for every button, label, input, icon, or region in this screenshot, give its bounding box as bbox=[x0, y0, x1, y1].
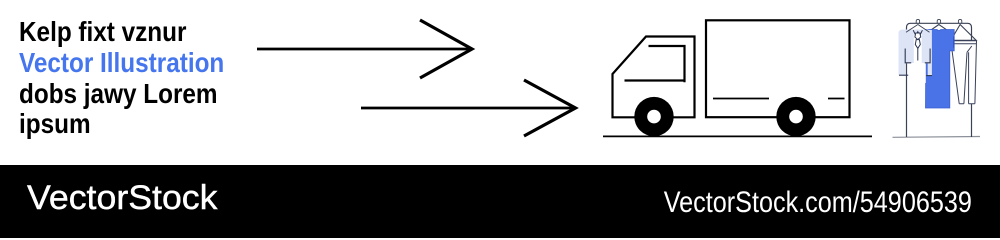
rack frame: top bar and posts bbox=[907, 23, 972, 137]
blue garment sleeve seam bbox=[953, 37, 955, 48]
white shirt tail bbox=[908, 63, 926, 83]
pants outer edges bbox=[951, 41, 977, 104]
arrow 1 shaft bbox=[257, 48, 470, 51]
truck cab window bbox=[625, 46, 685, 82]
watermark url bbox=[663, 186, 971, 220]
headline text block bbox=[19, 17, 224, 140]
truck box dash right bbox=[828, 98, 845, 100]
arrow 1 head bbox=[420, 20, 472, 78]
truck front wheel bbox=[634, 97, 673, 136]
left sleeve cuff bbox=[899, 74, 908, 76]
jacket right sleeve over blue garment bbox=[928, 30, 932, 76]
hanger hook 3 bbox=[958, 19, 961, 23]
pants body bbox=[951, 41, 977, 104]
tie body bbox=[915, 40, 920, 49]
hanger hook 1 bbox=[916, 19, 919, 23]
right sleeve cuff bbox=[926, 75, 932, 77]
jacket hem bracket left bbox=[905, 49, 911, 63]
tie knot bbox=[915, 33, 921, 40]
middle garment hanger triangle bbox=[926, 25, 953, 34]
suit jacket body bbox=[899, 30, 931, 64]
truck cab body bbox=[613, 37, 695, 118]
jacket hem bracket right bbox=[925, 49, 930, 63]
shirt hanger arms bbox=[906, 25, 930, 33]
truck cargo box bbox=[706, 20, 850, 117]
pants inner leg lines bbox=[959, 52, 975, 103]
tie keeper line bbox=[917, 48, 919, 60]
pants hanger triangle bbox=[951, 25, 976, 41]
pants top diagonal crease bbox=[967, 46, 972, 52]
truck rear wheel bbox=[776, 97, 815, 136]
black footer bar bbox=[0, 165, 1000, 238]
VectorStock logo bbox=[27, 179, 217, 218]
truck ground line bbox=[603, 135, 872, 137]
jacket left sleeve bbox=[899, 34, 906, 76]
clothes rack floor line bbox=[893, 136, 981, 139]
illustration svg bbox=[0, 0, 1000, 165]
blue garment bbox=[926, 30, 955, 109]
arrow 2 head bbox=[524, 80, 576, 136]
truck box dash left bbox=[713, 98, 769, 100]
pants waistband line bbox=[951, 43, 977, 45]
collar points bbox=[913, 30, 922, 35]
white open front band bbox=[914, 33, 922, 64]
arrow 2 shaft bbox=[361, 107, 573, 110]
hanger hook 2 bbox=[937, 19, 940, 23]
